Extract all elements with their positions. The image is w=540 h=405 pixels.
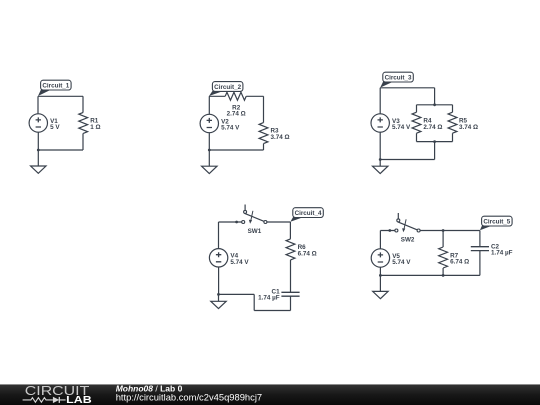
resistor R1 [79,112,101,133]
resistor R3 [259,123,289,144]
ground [211,301,226,308]
svg-text:5 V: 5 V [50,124,60,131]
svg-text:5.74 V: 5.74 V [221,125,240,132]
capacitor C1 [258,288,299,301]
wire [380,88,452,166]
svg-text:5.74 V: 5.74 V [230,259,249,266]
svg-text:LAB: LAB [66,395,92,405]
ground [202,166,217,173]
svg-text:2.74 Ω: 2.74 Ω [227,111,246,118]
svg-text:5.74 V: 5.74 V [392,124,411,131]
CircuitLab logo [23,384,92,405]
svg-text:3.74 Ω: 3.74 Ω [459,124,478,131]
wire [38,96,83,166]
svg-text:Circuit_3: Circuit_3 [385,74,412,81]
svg-text:6.74 Ω: 6.74 Ω [298,250,317,257]
junction node [217,293,220,296]
junction node [208,149,211,152]
svg-text:6.74 Ω: 6.74 Ω [450,259,469,266]
junction node [433,103,436,106]
capacitor C2 [471,243,513,256]
voltage source V5 [371,249,411,267]
resistor R6 [286,239,317,260]
svg-text:Circuit_4: Circuit_4 [295,210,322,217]
junction node [379,274,382,277]
switch SW1 [242,205,267,235]
voltage source V1 [29,114,60,132]
ground [31,166,46,173]
svg-text:Circuit_1: Circuit_1 [42,82,69,89]
footer title text [116,383,262,402]
junction node [442,229,445,232]
node Circuit_4 flag [290,208,323,222]
node Circuit_5 flag [480,216,512,230]
ground [373,291,388,298]
svg-text:http://circuitlab.com/c2v45q98: http://circuitlab.com/c2v45q989hcj7 [116,391,262,402]
ground [373,166,388,173]
svg-text:5.74 V: 5.74 V [392,259,411,266]
wire [380,231,480,292]
svg-text:2.74 Ω: 2.74 Ω [423,124,442,131]
svg-text:1 Ω: 1 Ω [90,124,100,131]
resistor R4 [412,112,442,133]
switch SW2 [395,213,420,243]
footer bar [0,384,540,405]
junction node [37,149,40,152]
svg-text:SW1: SW1 [248,228,262,235]
junction node [388,229,391,232]
voltage source V3 [371,114,411,132]
resistor R2 [225,92,246,117]
svg-text:1.74 µF: 1.74 µF [258,295,280,302]
resistor R7 [439,247,469,268]
node Circuit_3 flag [380,72,413,87]
node Circuit_2 flag [209,82,243,96]
voltage source V2 [200,114,240,132]
svg-text:Circuit_5: Circuit_5 [483,218,510,225]
svg-text:1.74 µF: 1.74 µF [491,250,513,257]
junction node [235,221,238,224]
junction node [379,158,382,161]
junction node [433,140,436,143]
voltage source V4 [209,249,249,267]
svg-text:SW2: SW2 [401,236,415,243]
resistor R5 [448,112,478,133]
junction node [442,274,445,277]
svg-text:3.74 Ω: 3.74 Ω [271,134,290,141]
wire [219,222,291,311]
wire [209,96,264,166]
node Circuit_1 flag [38,80,71,96]
svg-text:Circuit_2: Circuit_2 [214,84,241,91]
